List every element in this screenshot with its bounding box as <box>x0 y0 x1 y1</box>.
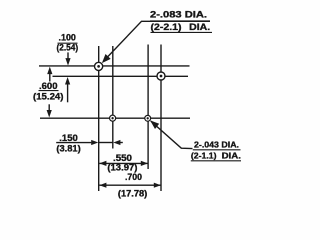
svg-text:(2-2.1): (2-2.1) <box>151 22 182 32</box>
svg-text:2-.083 DIA.: 2-.083 DIA. <box>150 9 207 19</box>
svg-text:2-.043 DIA.: 2-.043 DIA. <box>194 140 239 150</box>
svg-text:(3.81): (3.81) <box>56 144 80 154</box>
svg-text:(17.78): (17.78) <box>118 188 147 198</box>
svg-text:DIA.: DIA. <box>222 151 241 161</box>
svg-text:.150: .150 <box>59 133 78 143</box>
svg-text:.100: .100 <box>59 32 76 42</box>
svg-text:(2-1.1): (2-1.1) <box>191 151 217 161</box>
svg-text:(15.24): (15.24) <box>33 91 64 101</box>
svg-text:.600: .600 <box>39 81 58 91</box>
svg-text:(2.54): (2.54) <box>57 43 79 53</box>
svg-text:.550: .550 <box>113 153 132 163</box>
svg-text:.700: .700 <box>125 172 142 182</box>
svg-text:DIA.: DIA. <box>189 22 210 32</box>
